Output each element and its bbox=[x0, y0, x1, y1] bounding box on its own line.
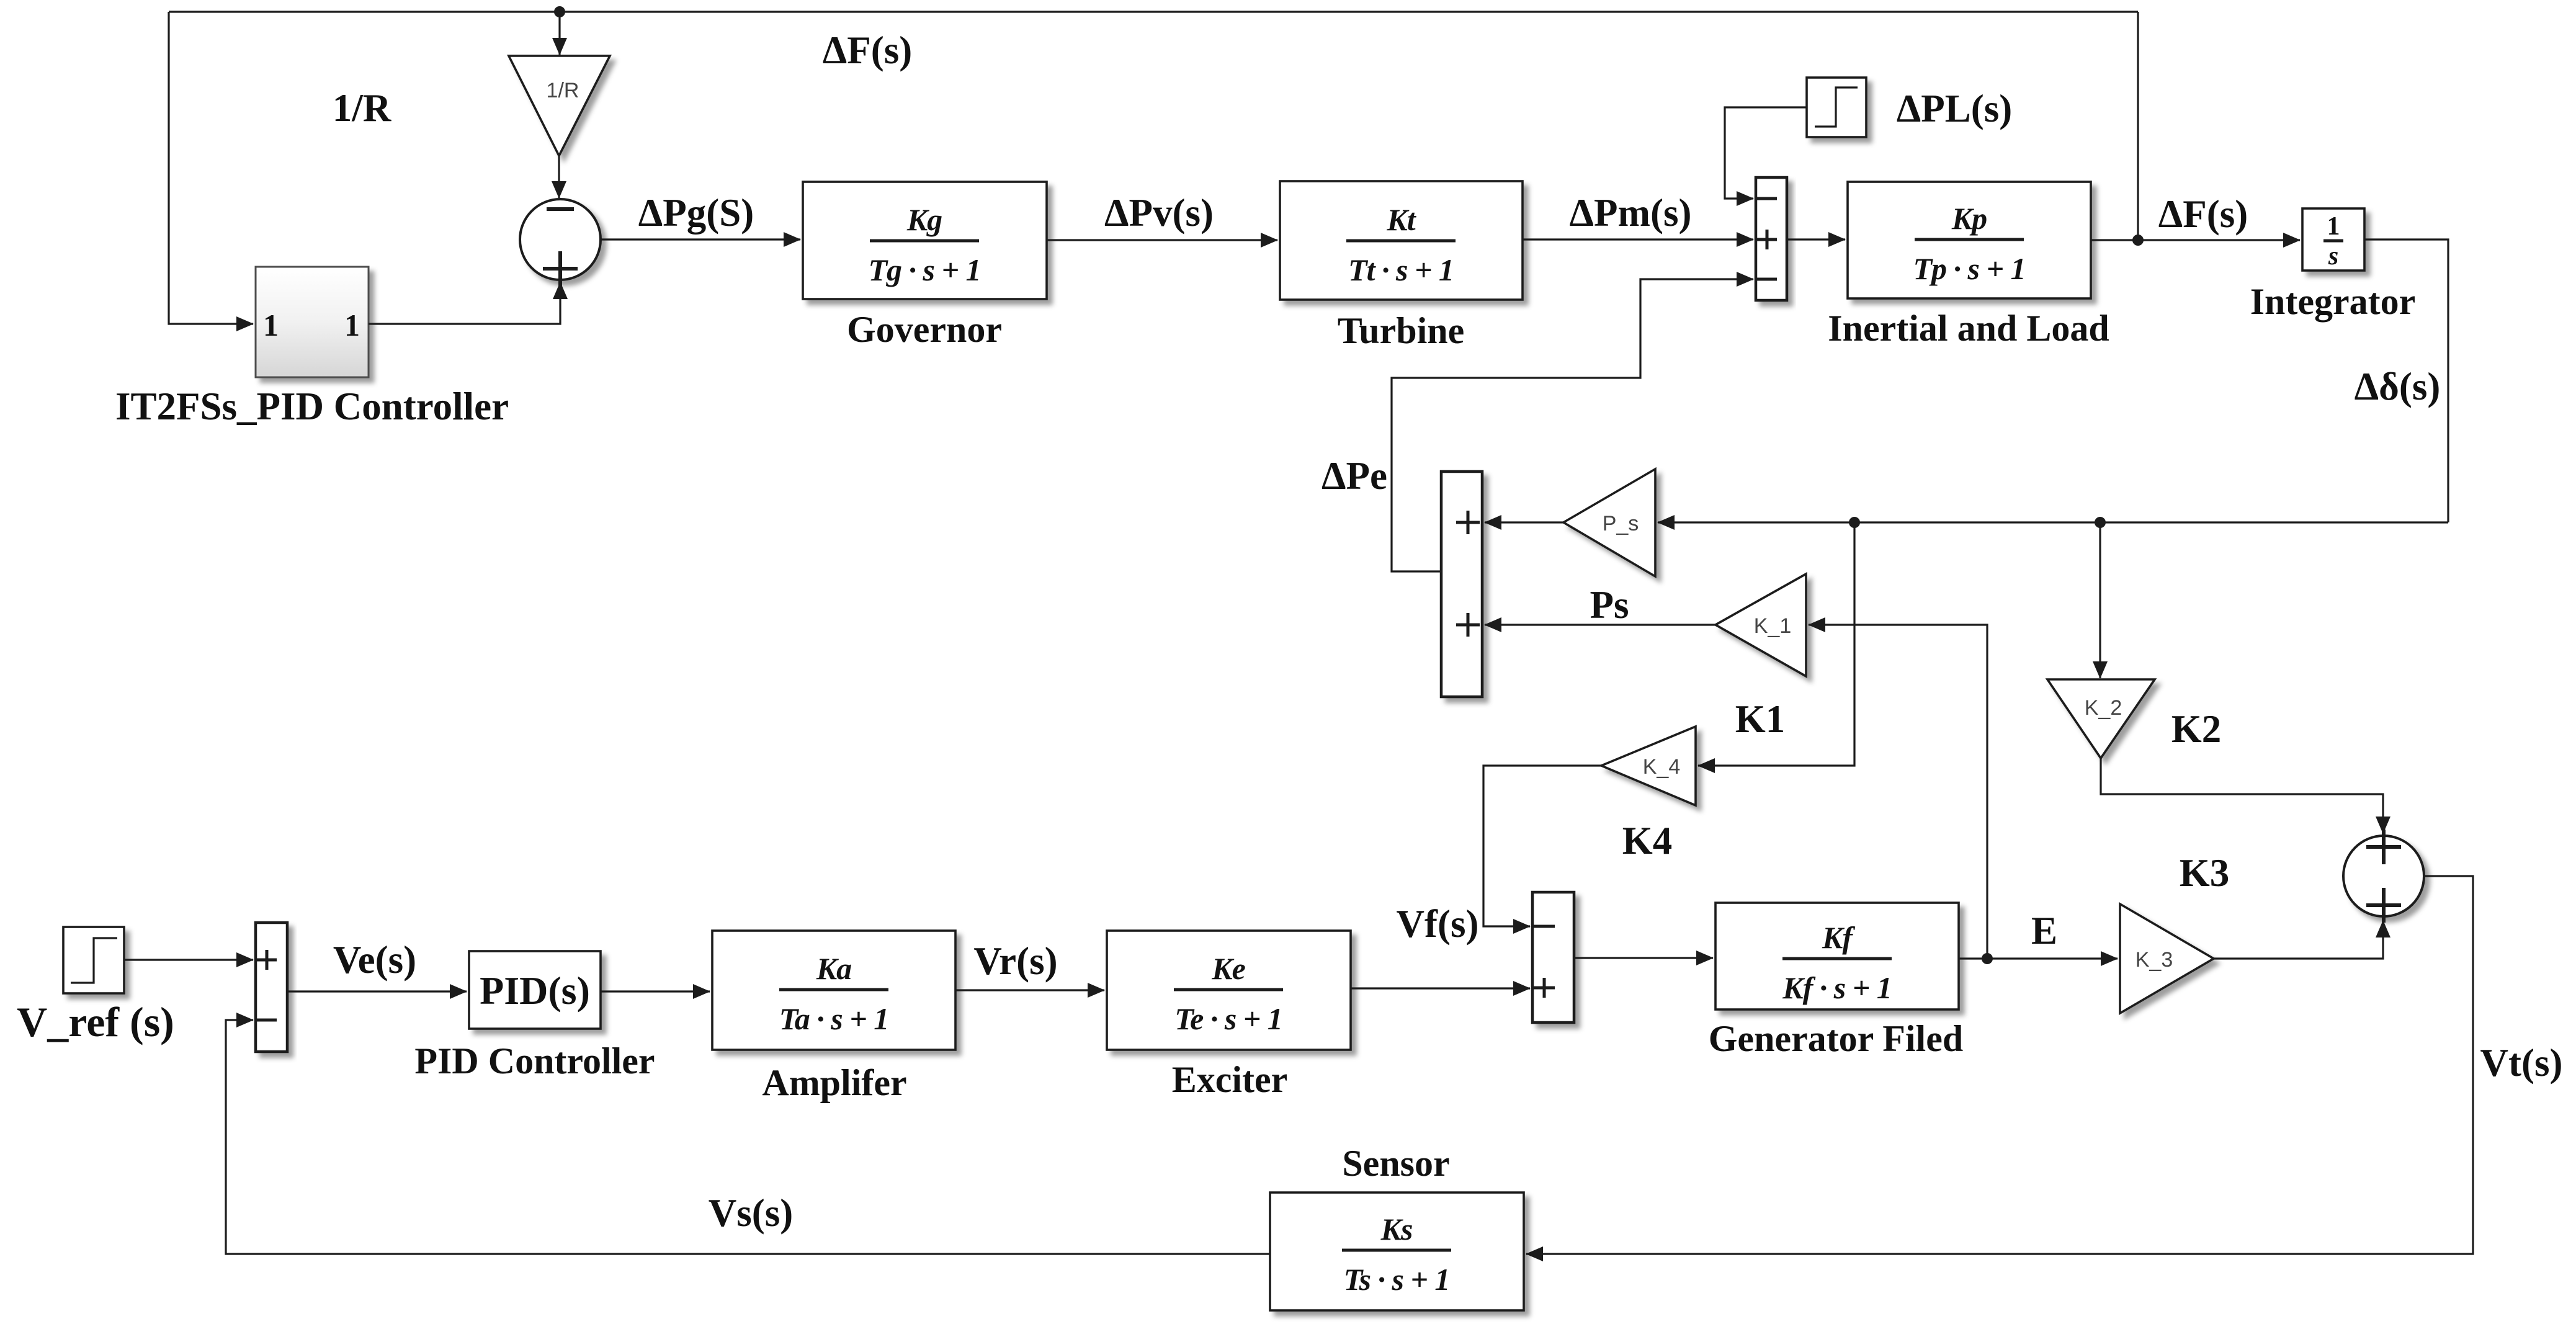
label PID Controller bbox=[414, 1040, 655, 1081]
block Governor Kg/(Tg·s+1) bbox=[803, 182, 1047, 299]
svg-text:1/R: 1/R bbox=[547, 79, 579, 102]
block Integrator 1/s bbox=[2302, 208, 2364, 271]
wire ΔPL step to summer S2 top input bbox=[1725, 107, 1807, 199]
svg-text:ΔPL(s): ΔPL(s) bbox=[1897, 87, 2012, 130]
svg-text:K_2: K_2 bbox=[2085, 696, 2122, 720]
wire E branch up to K_1 input bbox=[1809, 625, 1987, 959]
svg-text:Kf: Kf bbox=[1822, 920, 1855, 955]
svg-text:Exciter: Exciter bbox=[1172, 1059, 1288, 1100]
svg-text:Ka: Ka bbox=[816, 951, 851, 986]
wire PID to Amplifer bbox=[601, 990, 710, 992]
summer S3 rectangle ΔPe = P_s·Δδ + K_1·E bbox=[1441, 472, 1482, 697]
wire top line down into 1/R gain bbox=[558, 12, 560, 55]
svg-text:Δδ(s): Δδ(s) bbox=[2355, 365, 2441, 408]
svg-text:IT2FSs_PID Controller: IT2FSs_PID Controller bbox=[115, 385, 509, 428]
wire top feedback ΔF(s) line bbox=[169, 11, 2138, 12]
svg-text:K_1: K_1 bbox=[1754, 614, 1792, 638]
label K2 bbox=[2171, 707, 2222, 751]
wire ΔF(s) junction up to top feedback line bbox=[2137, 12, 2139, 240]
svg-text:Integrator: Integrator bbox=[2250, 281, 2416, 322]
svg-text:K4: K4 bbox=[1622, 819, 1673, 862]
label Amplifer bbox=[762, 1062, 906, 1103]
wire Generator Filed output to K_3, signal E bbox=[1959, 957, 2118, 959]
wire 1/R to summer bbox=[558, 156, 560, 198]
label ΔPg(S) bbox=[638, 191, 754, 235]
svg-text:Ks: Ks bbox=[1380, 1212, 1413, 1246]
label K1 bbox=[1735, 697, 1786, 741]
wire summer S3 output to summer S2 bottom input bbox=[1392, 279, 1753, 571]
svg-text:Generator Filed: Generator Filed bbox=[1709, 1018, 1963, 1059]
svg-text:Governor: Governor bbox=[847, 309, 1002, 350]
svg-text:Ta · s + 1: Ta · s + 1 bbox=[779, 1001, 888, 1036]
wire Δδ(s) horizontal to P_s gain bbox=[1658, 521, 2448, 523]
svg-text:ΔPv(s): ΔPv(s) bbox=[1104, 191, 1214, 235]
block V_ref step source bbox=[63, 927, 124, 993]
svg-text:K_4: K_4 bbox=[1643, 755, 1681, 779]
label Ve(s) bbox=[333, 938, 416, 982]
label Sensor bbox=[1342, 1143, 1449, 1184]
svg-text:Vt(s): Vt(s) bbox=[2480, 1041, 2563, 1085]
block Generator Filed Kf/(Kf·s+1) bbox=[1715, 903, 1959, 1009]
gain P_s triangle bbox=[1563, 469, 1655, 576]
svg-text:Ve(s): Ve(s) bbox=[333, 938, 416, 982]
wire K_2 branch down from Δδ line bbox=[2099, 522, 2101, 678]
wire Sensor output Vs(s) back to summer S4 minus input bbox=[226, 1020, 1270, 1254]
label Δδ(s) bbox=[2355, 365, 2441, 408]
svg-text:Kp: Kp bbox=[1951, 201, 1987, 236]
block Sensor Ks/(Ts·s+1) bbox=[1270, 1193, 1524, 1310]
svg-text:Kt: Kt bbox=[1386, 202, 1416, 237]
gain K_3 triangle bbox=[2120, 904, 2214, 1013]
svg-text:1: 1 bbox=[263, 308, 279, 342]
gain 1/R triangle bbox=[509, 56, 610, 156]
node junction on top line above 1/R bbox=[554, 6, 565, 17]
label ΔF(s) right bbox=[2158, 192, 2248, 236]
svg-text:Tp · s + 1: Tp · s + 1 bbox=[1913, 251, 2026, 286]
label Vt(s) bbox=[2480, 1041, 2563, 1085]
block Inertial and Load Kp/(Tp·s+1) bbox=[1848, 182, 2091, 298]
svg-text:ΔPe: ΔPe bbox=[1322, 454, 1387, 498]
label Exciter bbox=[1172, 1059, 1288, 1100]
block Amplifer Ka/(Ta·s+1) bbox=[712, 931, 955, 1050]
label Vs(s) bbox=[709, 1191, 794, 1235]
label ΔF(s) top bbox=[823, 29, 912, 72]
svg-text:ΔPg(S): ΔPg(S) bbox=[638, 191, 754, 235]
wire K_1 output to summer S3 lower input, signal Ps bbox=[1485, 624, 1715, 625]
node junction Δδ to K_4 bbox=[1849, 517, 1860, 528]
gain K_4 triangle bbox=[1601, 727, 1696, 805]
label Integrator bbox=[2250, 281, 2416, 322]
wire Integrator output to Δδ vertical bbox=[2364, 239, 2448, 522]
block IT2FSs_PID Controller subsystem bbox=[256, 267, 369, 377]
label ΔPe bbox=[1322, 454, 1387, 498]
summing junction S6 (Vt) bbox=[2343, 830, 2424, 923]
svg-text:Vs(s): Vs(s) bbox=[709, 1191, 794, 1235]
block ΔPL(s) step source bbox=[1807, 78, 1866, 137]
label IT2FSs_PID Controller bbox=[115, 385, 509, 428]
wire K_4 branch from Δδ line to K_4 input bbox=[1698, 522, 1854, 766]
label ΔPv(s) bbox=[1104, 191, 1214, 235]
wire V_ref to summer S4 plus input bbox=[124, 959, 253, 960]
wire Turbine to summer S2, signal ΔPm(s) bbox=[1523, 238, 1753, 240]
svg-text:E: E bbox=[2031, 909, 2057, 952]
node junction E bbox=[1982, 953, 1993, 964]
gain K_1 triangle bbox=[1715, 574, 1806, 676]
label Generator Filed bbox=[1709, 1018, 1963, 1059]
label K3 bbox=[2180, 851, 2230, 895]
svg-text:1: 1 bbox=[344, 308, 360, 342]
label Turbine bbox=[1338, 310, 1465, 351]
svg-text:Tg · s + 1: Tg · s + 1 bbox=[869, 253, 981, 287]
label ΔPm(s) bbox=[1570, 191, 1692, 235]
svg-text:Ke: Ke bbox=[1211, 951, 1245, 986]
label Inertial and Load bbox=[1828, 308, 2109, 349]
label K4 bbox=[1622, 819, 1673, 862]
svg-text:Ts · s + 1: Ts · s + 1 bbox=[1344, 1262, 1450, 1297]
svg-text:Amplifer: Amplifer bbox=[762, 1062, 906, 1103]
label V_ref (s) bbox=[17, 998, 174, 1045]
svg-text:Vr(s): Vr(s) bbox=[973, 939, 1057, 983]
wire P_s output to summer S3 upper input bbox=[1485, 521, 1563, 523]
svg-text:ΔPm(s): ΔPm(s) bbox=[1570, 191, 1692, 235]
svg-text:P_s: P_s bbox=[1603, 512, 1639, 535]
block Exciter Ke/(Te·s+1) bbox=[1107, 931, 1351, 1050]
summer S5 rectangle (Vf − K4·Δδ) bbox=[1532, 892, 1574, 1022]
svg-text:Vf(s): Vf(s) bbox=[1397, 902, 1479, 946]
wire S6 output Vt(s) down to Sensor bbox=[1526, 876, 2473, 1254]
svg-text:1/R: 1/R bbox=[333, 86, 392, 130]
label ΔPL(s) bbox=[1897, 87, 2012, 130]
wire Governor to Turbine, signal ΔPv(s) bbox=[1047, 239, 1277, 241]
svg-text:Sensor: Sensor bbox=[1342, 1143, 1449, 1184]
label E bbox=[2031, 909, 2057, 952]
svg-text:K_3: K_3 bbox=[2135, 948, 2173, 972]
svg-text:Kg: Kg bbox=[906, 202, 942, 237]
wire IT2FSs output to summer S1 plus input bbox=[369, 282, 560, 324]
wire left feedback vertical down to IT2FSs input bbox=[169, 12, 253, 324]
label 1/R bbox=[333, 86, 392, 130]
svg-text:s: s bbox=[2328, 242, 2338, 271]
svg-text:PID Controller: PID Controller bbox=[414, 1040, 655, 1081]
wire K_3 output to summer S6 bottom input bbox=[2214, 921, 2383, 959]
svg-text:1: 1 bbox=[2327, 212, 2340, 241]
wire Amplifer to Exciter, signal Vr(s) bbox=[955, 989, 1104, 991]
label Governor bbox=[847, 309, 1002, 350]
svg-text:V_ref (s): V_ref (s) bbox=[17, 998, 174, 1045]
wire K_4 output down to summer S5 minus input bbox=[1483, 766, 1601, 926]
summer S2 rectangle (ΔPm − ΔPL − ΔPe) bbox=[1756, 177, 1787, 300]
svg-text:PID(s): PID(s) bbox=[480, 969, 590, 1013]
wire S1 to Governor, signal ΔPg(S) bbox=[601, 238, 800, 240]
block Turbine Kt/(Tt·s+1) bbox=[1280, 181, 1523, 300]
label Vr(s) bbox=[973, 939, 1057, 983]
svg-text:Ps: Ps bbox=[1590, 583, 1629, 627]
summer S4 rectangle Ve = V_ref − Vs bbox=[256, 923, 287, 1052]
svg-text:ΔF(s): ΔF(s) bbox=[823, 29, 912, 72]
wire Exciter to summer S5, signal Vf(s) bbox=[1351, 987, 1530, 989]
node junction Δδ to K_2 bbox=[2095, 517, 2106, 528]
wire summer S4 to PID, signal Ve(s) bbox=[287, 990, 467, 992]
svg-text:Turbine: Turbine bbox=[1338, 310, 1465, 351]
label Vf(s) bbox=[1397, 902, 1479, 946]
svg-text:Inertial and Load: Inertial and Load bbox=[1828, 308, 2109, 349]
svg-text:K2: K2 bbox=[2171, 707, 2222, 751]
svg-text:K1: K1 bbox=[1735, 697, 1786, 741]
svg-text:K3: K3 bbox=[2180, 851, 2230, 895]
summing junction S1 bbox=[520, 199, 601, 286]
svg-text:Te · s + 1: Te · s + 1 bbox=[1174, 1001, 1282, 1036]
wire K_2 output to summer S6 top input bbox=[2101, 758, 2383, 833]
wire Inertial output to Integrator, signal ΔF(s) bbox=[2091, 239, 2300, 241]
label Ps bbox=[1590, 583, 1629, 627]
wire summer S2 to Inertial and Load bbox=[1787, 238, 1845, 240]
svg-text:Kf · s + 1: Kf · s + 1 bbox=[1782, 970, 1891, 1005]
svg-text:Tt · s + 1: Tt · s + 1 bbox=[1348, 253, 1454, 287]
gain K_2 triangle bbox=[2047, 679, 2155, 758]
node junction ΔF(s) bbox=[2132, 235, 2144, 246]
wire summer S5 to Generator Filed bbox=[1574, 957, 1713, 959]
svg-text:ΔF(s): ΔF(s) bbox=[2158, 192, 2248, 236]
block PID(s) controller bbox=[469, 951, 601, 1029]
